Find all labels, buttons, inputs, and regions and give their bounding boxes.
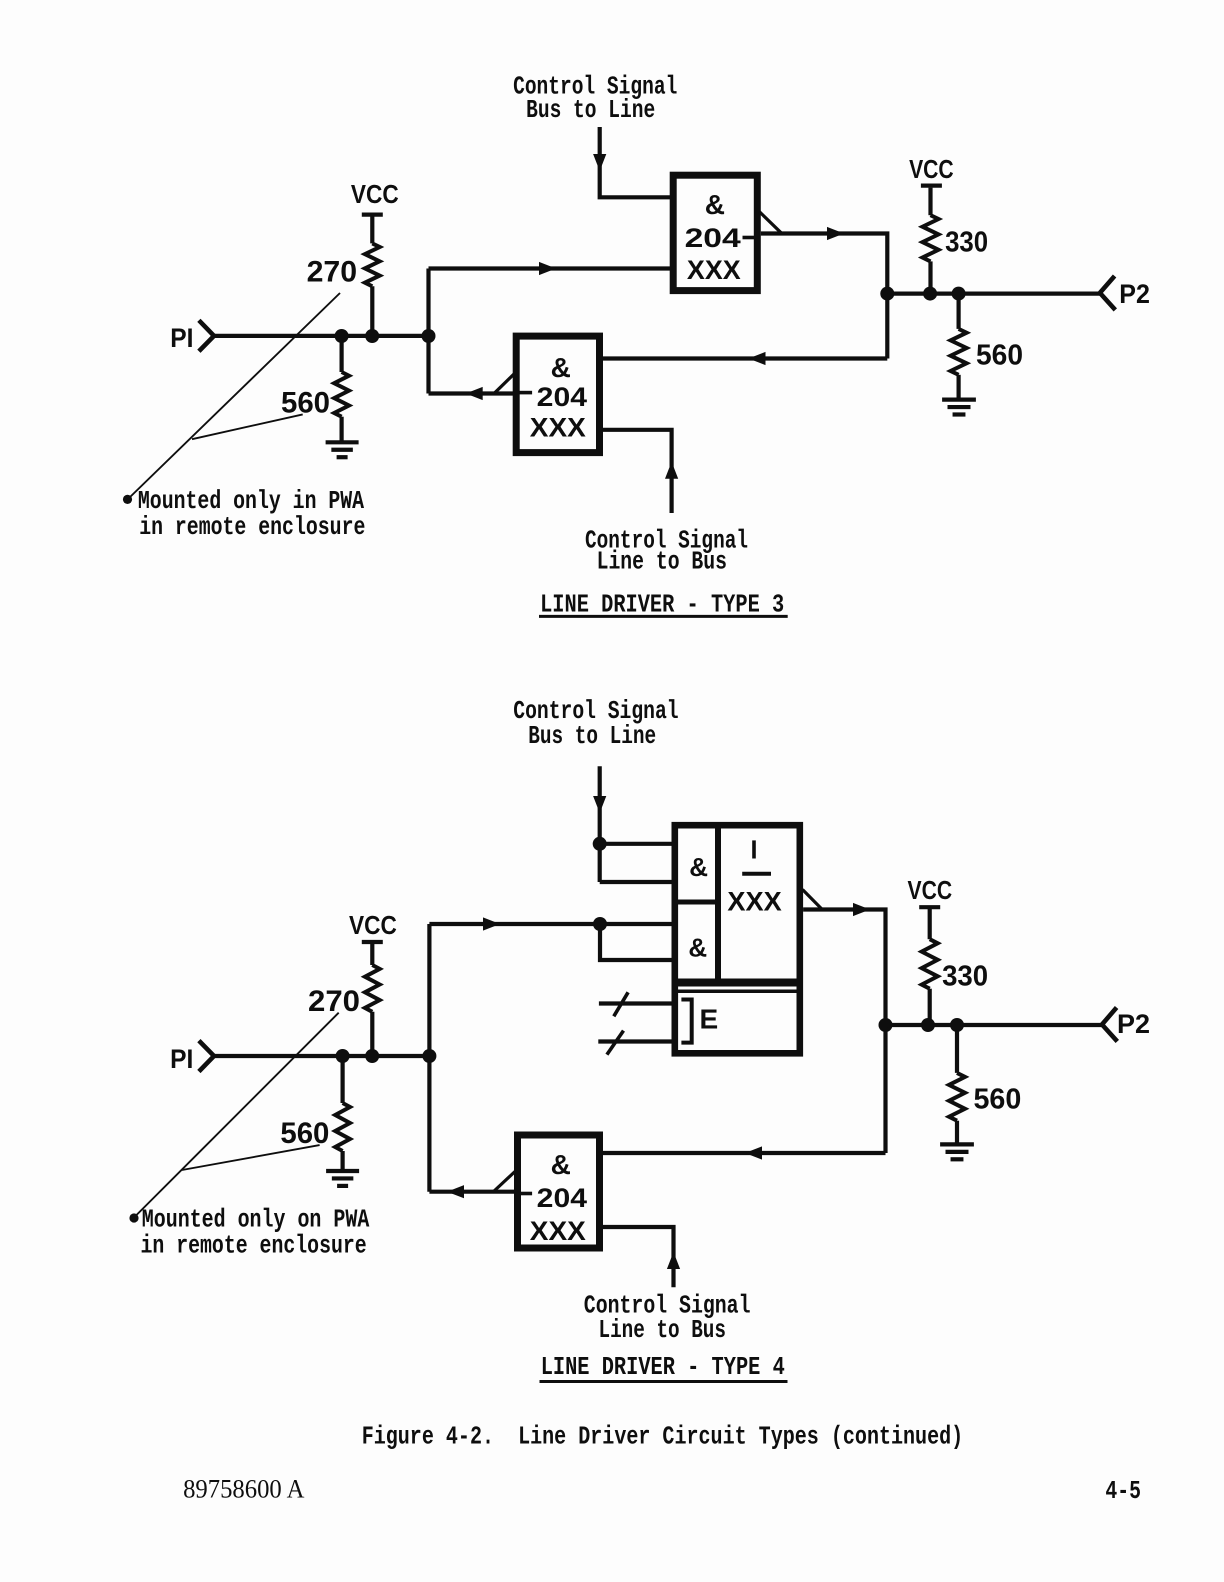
callout bullet: [123, 495, 132, 504]
wire control bus-to-line vertical (bottom): [593, 766, 606, 882]
resistor R4 560 body: [951, 294, 967, 400]
callout line to mounted note: [129, 293, 341, 499]
svg-text:Line to Bus: Line to Bus: [597, 547, 727, 577]
svg-text:VCC: VCC: [908, 875, 953, 905]
wire U2 output to node A: [429, 387, 517, 400]
U1 pin dash (204-): [743, 236, 755, 240]
page number 4-5: [1105, 1476, 1141, 1506]
junction node A: [422, 329, 436, 343]
bus slash on enable input 2: [607, 1031, 624, 1055]
U4 label XXX: [530, 1216, 586, 1246]
wire U3 input b2: [600, 924, 675, 960]
callout branch from R2: [192, 414, 303, 439]
wire node B down to U2 input: [885, 294, 889, 359]
U3 label XXX: [727, 886, 781, 916]
U1 label &: [705, 189, 725, 220]
U2 label 204: [537, 382, 587, 412]
connector P2 (bottom): [1102, 1008, 1117, 1042]
junction P1-R2: [335, 329, 349, 343]
svg-text:P2: P2: [1117, 1009, 1150, 1039]
title LINE DRIVER - TYPE 3: [539, 590, 788, 620]
U3 enable bracket: [681, 1000, 691, 1043]
svg-text:560: 560: [280, 1117, 329, 1150]
svg-text:PI: PI: [170, 1044, 193, 1074]
svg-text:&: &: [551, 1149, 571, 1180]
wire U1 lower input from node A: [429, 262, 672, 275]
svg-text:Bus to Line: Bus to Line: [528, 721, 656, 751]
U3 inner divider between AND cells: [675, 900, 718, 905]
junction R4 node: [952, 287, 966, 301]
junction R3 node: [923, 287, 937, 301]
power VCC symbol (right, bottom circuit): [908, 875, 953, 907]
U1 label XXX: [687, 255, 741, 285]
label P2: [1119, 279, 1150, 309]
svg-text:&: &: [689, 852, 708, 882]
U2 label XXX: [530, 413, 586, 443]
label R3 value 330: [945, 227, 988, 259]
wire node A vertical trunk: [426, 269, 430, 394]
connector P1 (bottom): [199, 1041, 214, 1072]
svg-text:560: 560: [976, 339, 1023, 371]
svg-text:270: 270: [307, 256, 358, 289]
wire U2 input (right to left): [603, 352, 887, 365]
wire U3 input a1: [600, 842, 675, 846]
svg-text:89758600 A: 89758600 A: [183, 1475, 305, 1504]
and-gate U1 box (& 204-XXX): [673, 175, 757, 290]
svg-text:204: 204: [685, 223, 741, 253]
wire node C vertical trunk: [427, 924, 431, 1192]
svg-text:204: 204: [537, 1183, 587, 1213]
svg-text:XXX: XXX: [727, 886, 781, 916]
svg-text:Bus to Line: Bus to Line: [526, 95, 655, 125]
svg-text:&: &: [705, 189, 725, 220]
and-gate U2 box (& -204 XXX): [516, 336, 599, 453]
wire U2 to control line-to-bus: [603, 430, 678, 513]
junction P1-R1: [365, 329, 379, 343]
wire P1 to node A: [212, 334, 429, 338]
U2 pin dash (-204): [520, 391, 533, 395]
U4 output polarity flag: [493, 1171, 516, 1193]
caption Figure 4-2: [362, 1422, 964, 1452]
label R5 value 270: [308, 985, 360, 1018]
svg-text:E: E: [700, 1004, 719, 1035]
svg-text:VCC: VCC: [351, 179, 399, 209]
wire U3 enable input 1 (bus): [599, 1001, 675, 1005]
wire node D down to U4 input: [883, 1025, 887, 1153]
wire node D to P2 (bottom): [886, 1023, 1103, 1027]
svg-text:XXX: XXX: [687, 255, 741, 285]
U4 pin dash (-204): [520, 1192, 533, 1196]
U2 output polarity flag: [493, 374, 514, 395]
svg-text:560: 560: [974, 1083, 1022, 1115]
node: Control Signal Line to Bus label (top circuit): [585, 526, 748, 577]
resistor R7 330 body: [922, 909, 938, 1025]
U3 inner divider vertical: [715, 825, 721, 984]
wire P1 to node C: [212, 1054, 429, 1058]
driver U3 box outer (1 XXX): [675, 825, 800, 1053]
callout line to mounted note (bottom): [135, 1013, 339, 1217]
label P1 (bottom): [170, 1044, 193, 1074]
resistor R8 560 body: [949, 1025, 965, 1144]
junction R7 node: [921, 1018, 935, 1032]
callout bullet (bottom): [129, 1213, 138, 1222]
U3 label 1 underbar: [742, 872, 771, 876]
power VCC symbol (left, top circuit): [351, 179, 399, 215]
label P2 (bottom): [1117, 1009, 1150, 1039]
junction node D: [879, 1018, 893, 1032]
label R8 value 560: [974, 1083, 1022, 1115]
junction U3 input b1: [593, 917, 607, 931]
wire U3 enable input 2 (bus): [598, 1039, 675, 1043]
connector P1: [199, 320, 214, 351]
svg-text:P2: P2: [1119, 279, 1150, 309]
title LINE DRIVER - TYPE 4: [540, 1352, 788, 1382]
svg-text:in remote enclosure: in remote enclosure: [139, 512, 365, 542]
callout branch from R6: [182, 1145, 320, 1170]
svg-text:330: 330: [942, 960, 988, 992]
label R7 value 330: [942, 960, 988, 992]
junction node B: [880, 287, 894, 301]
junction node C: [422, 1049, 436, 1063]
svg-text:&: &: [688, 932, 707, 962]
U3 label & (cell 1): [689, 852, 708, 882]
resistor R5 270 body: [365, 944, 380, 1057]
U3 label E: [700, 1004, 719, 1035]
and-gate U4 box (& -204 XXX): [518, 1135, 600, 1248]
document number 89758600 A: [183, 1475, 305, 1504]
wire U4 output to node C: [429, 1185, 516, 1198]
wire U4 to control line-to-bus: [603, 1227, 680, 1287]
svg-text:in remote enclosure: in remote enclosure: [141, 1230, 367, 1260]
svg-text:330: 330: [945, 227, 988, 259]
label R6 value 560: [280, 1117, 329, 1150]
power VCC symbol (left, bottom circuit): [349, 910, 397, 942]
wire U3 input a2: [600, 880, 675, 884]
resistor R6 560 body: [335, 1056, 350, 1171]
power VCC symbol (right, top circuit): [909, 154, 954, 186]
svg-text:&: &: [551, 352, 571, 383]
wire node B to P2: [887, 292, 1100, 296]
node: Control Signal Bus to Line label (top circuit): [513, 72, 677, 126]
U3 label 1 (driver): [752, 840, 756, 858]
note: Mounted only on PWA in remote enclosure: [141, 1204, 370, 1260]
junction P1-R5: [365, 1049, 379, 1063]
svg-text:4-5: 4-5: [1105, 1476, 1141, 1506]
ground (below R2): [326, 442, 359, 457]
U3 label & (cell 2): [688, 932, 707, 962]
U1 label 204: [685, 223, 741, 253]
junction R8 node: [950, 1018, 964, 1032]
wire U1 output to node B: [761, 227, 888, 294]
wire control-bus-to-line vertical into U1 with down arrow: [593, 127, 671, 197]
wire node C to U3 input b1: [429, 917, 675, 930]
svg-text:270: 270: [308, 985, 360, 1018]
U2 label &: [551, 352, 571, 383]
ground (below R6): [326, 1171, 359, 1186]
svg-text:PI: PI: [170, 323, 193, 353]
bus slash on enable input 1: [614, 992, 628, 1016]
svg-text:204: 204: [537, 382, 587, 412]
resistor R3 330 body: [923, 188, 939, 294]
svg-text:XXX: XXX: [530, 1216, 586, 1246]
wire U4 input (right to left): [603, 1146, 886, 1159]
U3 thick divider above E section: [675, 983, 800, 992]
svg-text:Figure 4-2. Line Driver Circu: Figure 4-2. Line Driver Circuit Types (c…: [362, 1422, 964, 1452]
svg-text:LINE DRIVER - TYPE 4: LINE DRIVER - TYPE 4: [541, 1352, 785, 1382]
svg-text:VCC: VCC: [909, 154, 954, 184]
svg-text:XXX: XXX: [530, 413, 586, 443]
junction U3 input a1: [593, 837, 607, 851]
resistor R1 270 body: [365, 216, 380, 336]
label P1: [170, 323, 193, 353]
ground (below R4): [942, 400, 976, 415]
label R2 value 560: [281, 387, 330, 420]
junction P1-R6: [336, 1049, 350, 1063]
U4 label &: [551, 1149, 571, 1180]
U4 label 204: [537, 1183, 587, 1213]
note: Mounted only in PWA in remote enclosure: [138, 486, 366, 542]
node: Control Signal Bus to Line label (bottom circuit): [513, 696, 678, 751]
svg-text:VCC: VCC: [349, 910, 397, 940]
svg-text:Line to Bus: Line to Bus: [599, 1315, 727, 1345]
U1 output polarity flag: [760, 212, 782, 233]
label R4 value 560: [976, 339, 1023, 371]
label R1 value 270: [307, 256, 358, 289]
node: Control Signal Line to Bus label (bottom circuit): [584, 1291, 751, 1346]
ground (below R8): [940, 1144, 974, 1159]
resistor R2 560 body: [334, 336, 349, 442]
connector P2: [1100, 276, 1115, 310]
wire U3 output to node D: [803, 903, 885, 1025]
svg-text:560: 560: [281, 387, 330, 420]
U3 output polarity flag: [803, 890, 822, 909]
